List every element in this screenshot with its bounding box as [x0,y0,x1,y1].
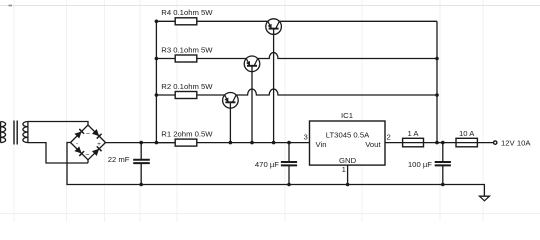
svg-text:2: 2 [386,133,390,142]
svg-text:IC1: IC1 [341,111,353,120]
svg-text:1 A: 1 A [407,129,419,138]
svg-text:+: + [97,141,101,148]
svg-text:R4 0.1ohm 5W: R4 0.1ohm 5W [161,8,213,17]
svg-text:~: ~ [85,150,89,159]
svg-text:~: ~ [86,129,90,138]
svg-text:10 A: 10 A [459,129,475,138]
svg-text:1: 1 [342,165,346,174]
svg-text:470 µF: 470 µF [255,160,279,169]
svg-text:R1 2ohm 0.5W: R1 2ohm 0.5W [161,130,213,139]
svg-text:R2 0.1ohm 5W: R2 0.1ohm 5W [161,82,213,91]
svg-text:22 mF: 22 mF [108,155,130,164]
svg-text:Vout: Vout [365,140,381,149]
svg-text:100 µF: 100 µF [408,160,432,169]
svg-text:R3 0.1ohm 5W: R3 0.1ohm 5W [161,45,213,54]
svg-text:12V 10A: 12V 10A [501,138,531,147]
svg-text:LT3045 0.5A: LT3045 0.5A [326,130,370,139]
svg-text:3: 3 [303,133,307,142]
svg-text:Vin: Vin [316,140,327,149]
svg-text:-: - [76,141,78,148]
